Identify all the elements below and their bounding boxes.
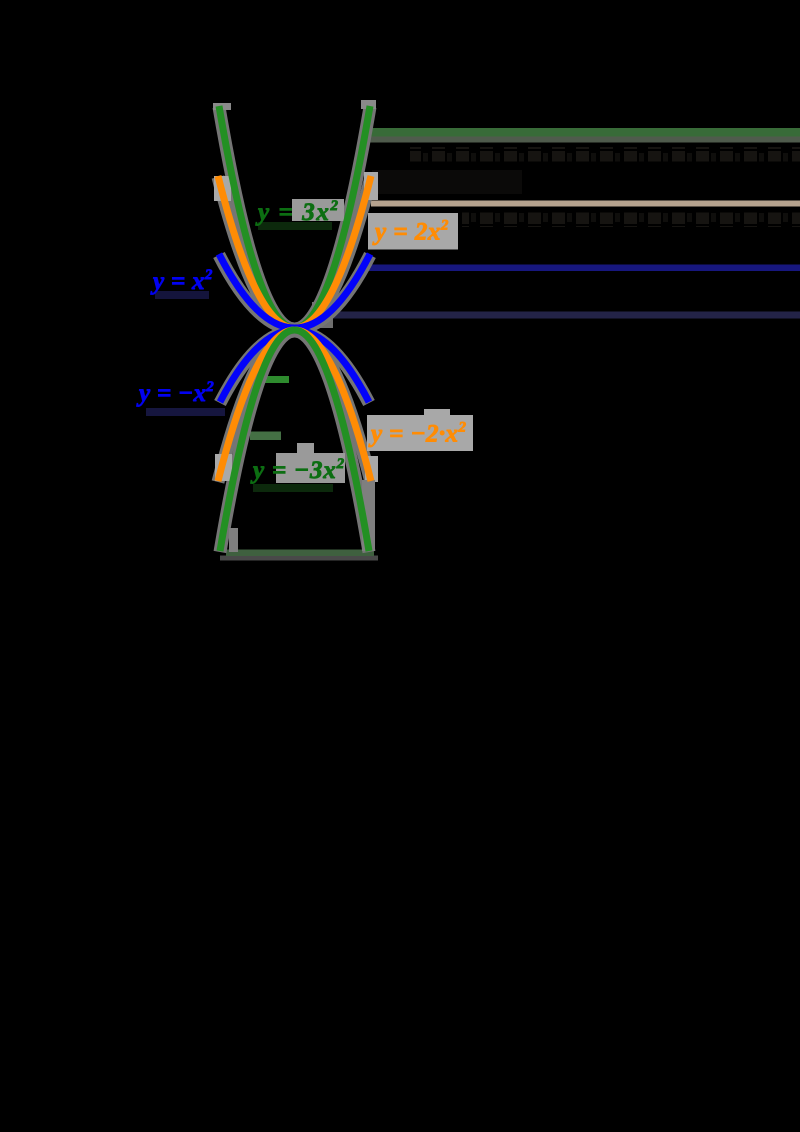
svg-text:y = −x2: y = −x2 — [136, 379, 214, 407]
svg-text:y = −3x2: y = −3x2 — [250, 456, 345, 484]
svg-text:y = 2x2: y = 2x2 — [372, 218, 449, 246]
svg-text:y = −2·x2: y = −2·x2 — [368, 420, 466, 448]
svg-text:y = 3x2: y = 3x2 — [255, 198, 340, 226]
svg-text:y = x2: y = x2 — [150, 267, 213, 295]
